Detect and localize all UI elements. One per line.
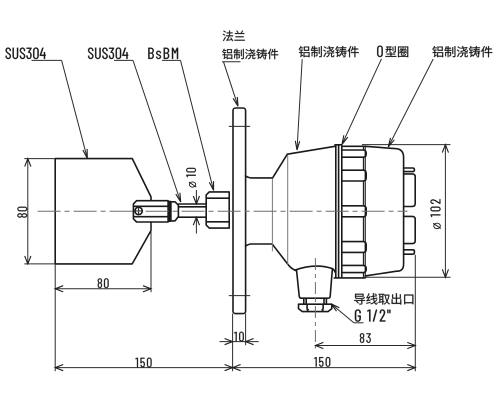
dimension 83 <box>315 333 415 348</box>
cover knurled ribs <box>342 146 366 278</box>
dimension 150 left ext line <box>232 314 234 372</box>
label SUS304 coupling <box>88 48 128 60</box>
housing body casting <box>342 146 404 276</box>
dimension 80 width ext lines <box>55 223 151 372</box>
label falan <box>223 30 245 41</box>
cover rim <box>334 145 365 278</box>
cover clamp tab upper small <box>404 168 415 172</box>
dimension 150 right ext line <box>414 255 416 371</box>
cover clamp lower <box>404 216 416 243</box>
leader BsBM shaft <box>162 60 214 190</box>
hex boss bushing <box>206 192 229 228</box>
body front edge <box>364 146 366 277</box>
label aluminum casting 1 <box>222 49 278 60</box>
dimension o102 ext lines <box>362 145 451 278</box>
label aluminum casting 3 <box>432 46 492 57</box>
cable gland nut <box>299 304 332 311</box>
leader SUS304 coupling <box>114 60 181 202</box>
label SUS304 paddle <box>6 48 46 60</box>
shaft BsBM o10 <box>178 204 206 217</box>
cover clamp upper <box>404 174 416 207</box>
leader G 1/2 gland <box>331 304 364 323</box>
shaft coupling SUS304 <box>133 201 178 222</box>
cable gland stem G 1/2 <box>304 298 327 304</box>
leader cone casting <box>295 59 302 150</box>
flange bolt hole lines <box>229 126 250 295</box>
label G 1/2 <box>355 309 391 321</box>
leader flange label <box>222 62 241 106</box>
leader body casting <box>388 59 433 147</box>
gland centerline <box>314 258 316 349</box>
label O-ring <box>377 46 408 58</box>
dimension 10 <box>220 332 259 345</box>
housing cone casting <box>246 146 336 271</box>
leader O-ring <box>342 59 382 145</box>
dimension 10 ext line <box>245 314 247 346</box>
label BsBM <box>148 48 178 59</box>
dimension 150 left <box>55 358 232 371</box>
dimension 150 right <box>233 357 416 371</box>
dimension o102 <box>430 145 448 278</box>
main centerline <box>38 210 408 212</box>
dimension 80 width <box>55 278 151 292</box>
set screw on coupling <box>135 207 142 214</box>
flange plate <box>233 108 246 314</box>
leader SUS304 paddle <box>32 60 88 158</box>
cover clamp tab lower small <box>404 250 415 254</box>
cone silhouette lines <box>272 155 287 264</box>
dimension 80 height <box>17 159 30 264</box>
dimension o10 <box>186 168 199 234</box>
conduit boss <box>295 266 336 298</box>
dimension 80 height ext lines <box>24 159 55 264</box>
paddle blade SUS304 <box>55 159 151 264</box>
label aluminum casting 2 <box>299 46 359 57</box>
label wire outlet <box>354 293 413 304</box>
